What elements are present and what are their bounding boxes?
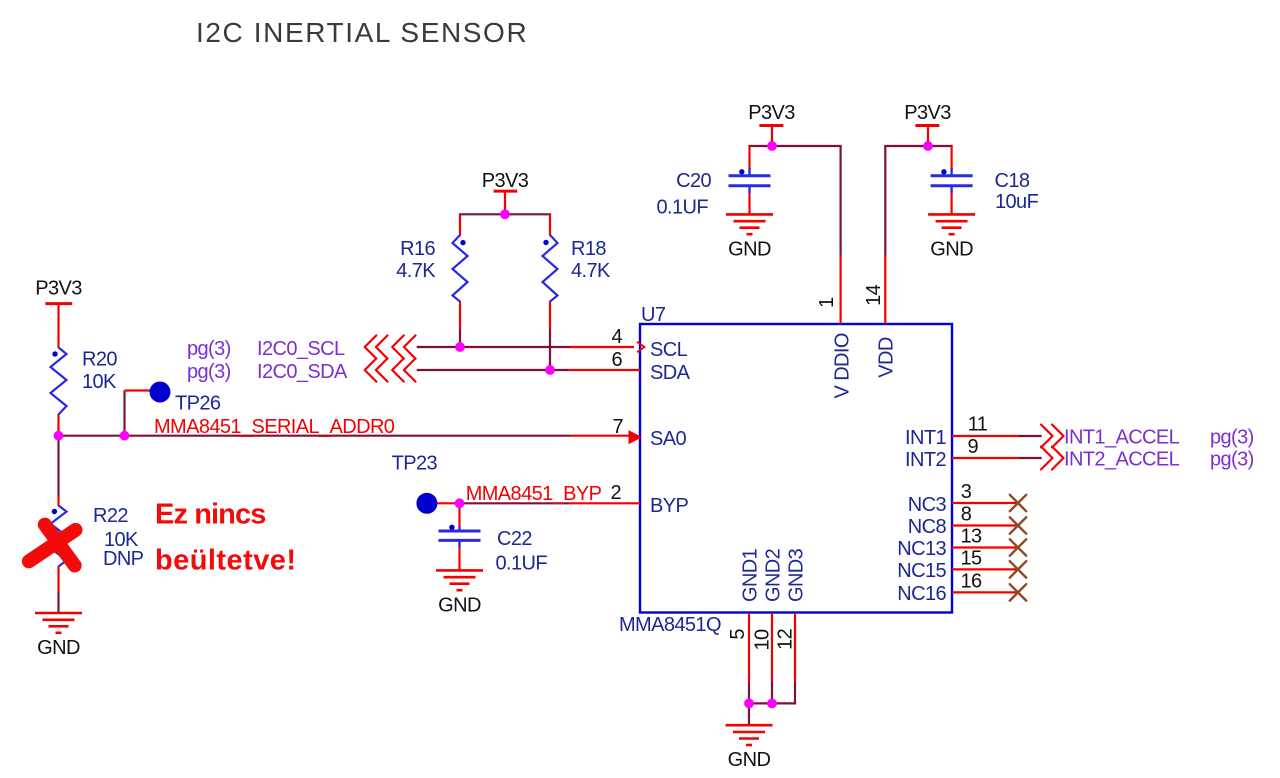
svg-text:NC16: NC16 (897, 583, 946, 605)
svg-text:15: 15 (960, 547, 982, 569)
svg-text:INT2_ACCEL: INT2_ACCEL (1064, 448, 1180, 470)
svg-text:P3V3: P3V3 (35, 278, 82, 300)
svg-text:pg(3): pg(3) (1210, 426, 1254, 448)
svg-text:SCL: SCL (650, 339, 688, 361)
svg-text:U7: U7 (641, 304, 666, 326)
svg-text:NC15: NC15 (897, 560, 946, 582)
svg-text:R18: R18 (571, 238, 606, 260)
svg-text:Ez nincs: Ez nincs (155, 499, 265, 531)
svg-text:1: 1 (816, 297, 838, 308)
svg-text:3: 3 (961, 481, 972, 503)
svg-text:R22: R22 (93, 505, 128, 527)
svg-text:I2C INERTIAL SENSOR: I2C INERTIAL SENSOR (196, 17, 528, 48)
svg-text:4.7K: 4.7K (396, 260, 436, 282)
svg-text:beültetve!: beültetve! (155, 545, 296, 577)
svg-text:P3V3: P3V3 (482, 170, 529, 192)
svg-text:INT1_ACCEL: INT1_ACCEL (1064, 426, 1180, 448)
svg-text:GND: GND (37, 637, 80, 659)
svg-text:0.1UF: 0.1UF (657, 197, 709, 219)
svg-text:GND3: GND3 (785, 548, 807, 602)
svg-text:NC8: NC8 (908, 516, 947, 538)
svg-text:MMA8451_SERIAL_ADDR0: MMA8451_SERIAL_ADDR0 (154, 416, 395, 438)
svg-text:13: 13 (960, 526, 982, 548)
svg-text:INT2: INT2 (905, 449, 946, 471)
svg-text:BYP: BYP (650, 495, 688, 517)
svg-text:16: 16 (960, 570, 982, 592)
svg-text:R20: R20 (82, 349, 117, 371)
svg-text:pg(3): pg(3) (1210, 448, 1254, 470)
svg-text:TP26: TP26 (175, 393, 221, 415)
svg-text:12: 12 (775, 628, 797, 650)
svg-text:0.1UF: 0.1UF (496, 553, 548, 575)
svg-text:GND: GND (728, 749, 771, 771)
svg-text:I2C0_SDA: I2C0_SDA (257, 361, 348, 383)
svg-text:GND: GND (930, 238, 973, 260)
svg-text:10uF: 10uF (995, 191, 1039, 213)
svg-text:I2C0_SCL: I2C0_SCL (257, 338, 345, 360)
svg-text:9: 9 (968, 436, 979, 458)
svg-text:VDD: VDD (875, 337, 897, 378)
svg-text:pg(3): pg(3) (187, 338, 231, 360)
svg-text:V DDIO: V DDIO (831, 333, 853, 398)
svg-text:GND2: GND2 (762, 548, 784, 602)
svg-text:6: 6 (611, 349, 622, 371)
svg-text:11: 11 (968, 414, 988, 436)
svg-text:SA0: SA0 (650, 428, 686, 450)
svg-text:INT1: INT1 (905, 427, 946, 449)
svg-text:4: 4 (611, 326, 622, 348)
svg-text:GND1: GND1 (739, 548, 761, 602)
svg-text:DNP: DNP (103, 548, 144, 570)
svg-text:8: 8 (961, 504, 972, 526)
svg-text:5: 5 (727, 629, 749, 640)
svg-text:GND: GND (438, 594, 481, 616)
svg-text:10K: 10K (82, 371, 117, 393)
svg-text:TP23: TP23 (392, 453, 438, 475)
svg-text:pg(3): pg(3) (187, 361, 231, 383)
svg-text:P3V3: P3V3 (904, 102, 951, 124)
svg-text:C18: C18 (995, 170, 1030, 192)
svg-text:R16: R16 (400, 238, 435, 260)
svg-text:MMA8451_BYP: MMA8451_BYP (466, 483, 602, 505)
svg-text:NC3: NC3 (908, 494, 947, 516)
svg-text:MMA8451Q: MMA8451Q (619, 614, 721, 636)
svg-text:SDA: SDA (650, 362, 691, 384)
svg-text:P3V3: P3V3 (748, 102, 795, 124)
svg-text:GND: GND (728, 238, 771, 260)
svg-text:10: 10 (752, 629, 774, 651)
svg-text:NC13: NC13 (897, 538, 946, 560)
svg-text:14: 14 (863, 284, 885, 306)
svg-text:C20: C20 (676, 170, 711, 192)
svg-text:2: 2 (610, 482, 621, 504)
svg-text:4.7K: 4.7K (571, 260, 611, 282)
svg-text:C22: C22 (497, 528, 532, 550)
